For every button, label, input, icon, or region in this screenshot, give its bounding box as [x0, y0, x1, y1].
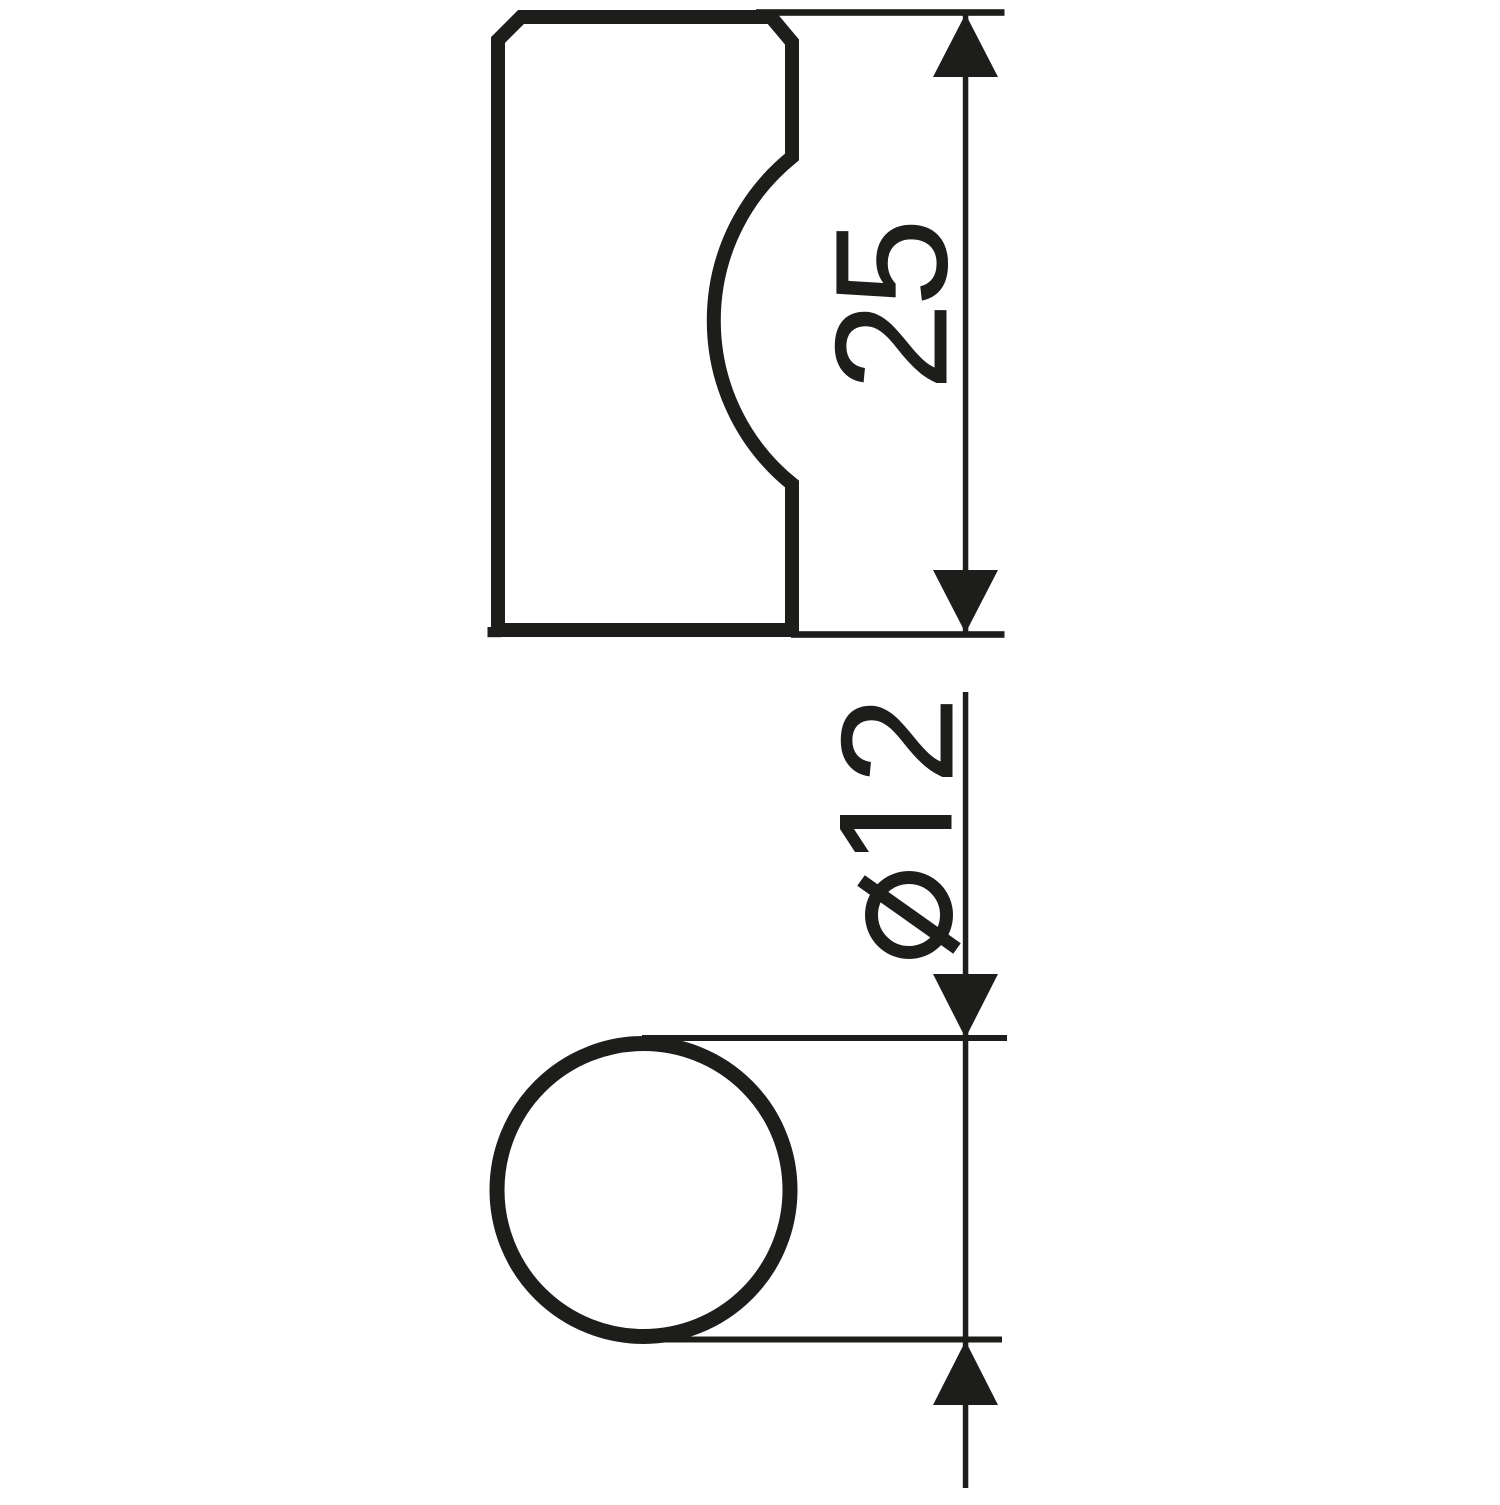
tangent line top (o12 dim): [642, 1035, 1007, 1041]
diameter symbol slash: [861, 881, 957, 949]
arrow down (25 dim): [933, 570, 998, 633]
knob side-view outline with finger notch: [498, 17, 792, 630]
extension line bottom (25 dim): [791, 631, 1005, 638]
knob front-view circle: [497, 1044, 790, 1337]
extension line top (25 dim): [756, 9, 1005, 16]
dimension text digit 1 flag: [840, 829, 869, 852]
svg-text:25: 25: [802, 223, 981, 391]
dimension line 25: [963, 14, 969, 632]
dimension line o12: [963, 692, 969, 1488]
bottom edge small left overhang step: [488, 627, 502, 637]
diameter symbol ring: [872, 878, 947, 953]
arrow down to top tangent (o12 dim): [933, 974, 998, 1038]
dimension text digit 1 stem: [840, 815, 952, 829]
arrow up (25 dim): [933, 14, 998, 77]
svg-text:2: 2: [808, 696, 987, 785]
arrow up to bottom tangent (o12 dim): [933, 1341, 998, 1405]
tangent line bottom (o12 dim): [642, 1337, 1002, 1343]
